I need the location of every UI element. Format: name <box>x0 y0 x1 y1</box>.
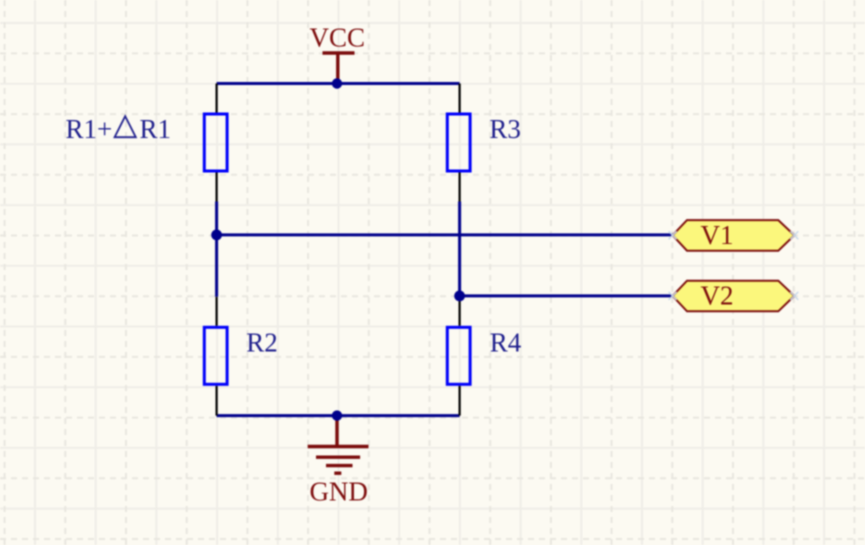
wire bottom rail <box>217 414 460 417</box>
port V2 <box>673 281 795 312</box>
resistor R3 body <box>447 114 470 171</box>
port V1 <box>673 220 795 251</box>
wire top rail <box>217 82 460 85</box>
wire left branch <box>215 202 218 297</box>
node marker V1 left tip <box>669 231 677 239</box>
svg-text:R1+: R1+ <box>66 114 113 144</box>
svg-text:V2: V2 <box>701 281 734 311</box>
power port VCC <box>310 23 366 84</box>
svg-text:R4: R4 <box>490 327 522 357</box>
svg-text:V1: V1 <box>701 220 734 250</box>
svg-text:GND: GND <box>309 476 368 506</box>
wire right branch <box>458 202 461 297</box>
resistor R3 pins <box>459 84 461 202</box>
svg-text:R1: R1 <box>140 114 172 144</box>
svg-text:VCC: VCC <box>310 23 366 53</box>
resistor R4 pins <box>459 297 461 416</box>
wire V2 net <box>460 294 673 297</box>
junction at GND node <box>332 410 342 420</box>
resistor R2 body <box>204 327 227 384</box>
resistor R4 body <box>447 327 470 384</box>
ground GND <box>308 416 369 507</box>
junction node V2 tap <box>454 291 465 302</box>
junction node V1 tap <box>211 230 222 241</box>
wire V1 net <box>217 233 673 236</box>
junction at VCC node <box>332 78 342 88</box>
node marker V2 left tip <box>669 292 677 300</box>
node marker V1 right tip <box>790 231 798 239</box>
svg-text:R3: R3 <box>489 114 521 144</box>
node marker V2 right tip <box>790 292 798 300</box>
resistor R2 pins <box>216 297 218 416</box>
svg-text:R2: R2 <box>246 327 278 357</box>
resistor R1 body <box>204 114 227 171</box>
resistor R1 label R1+dR1 <box>66 114 172 144</box>
resistor R1 pins <box>216 84 218 202</box>
